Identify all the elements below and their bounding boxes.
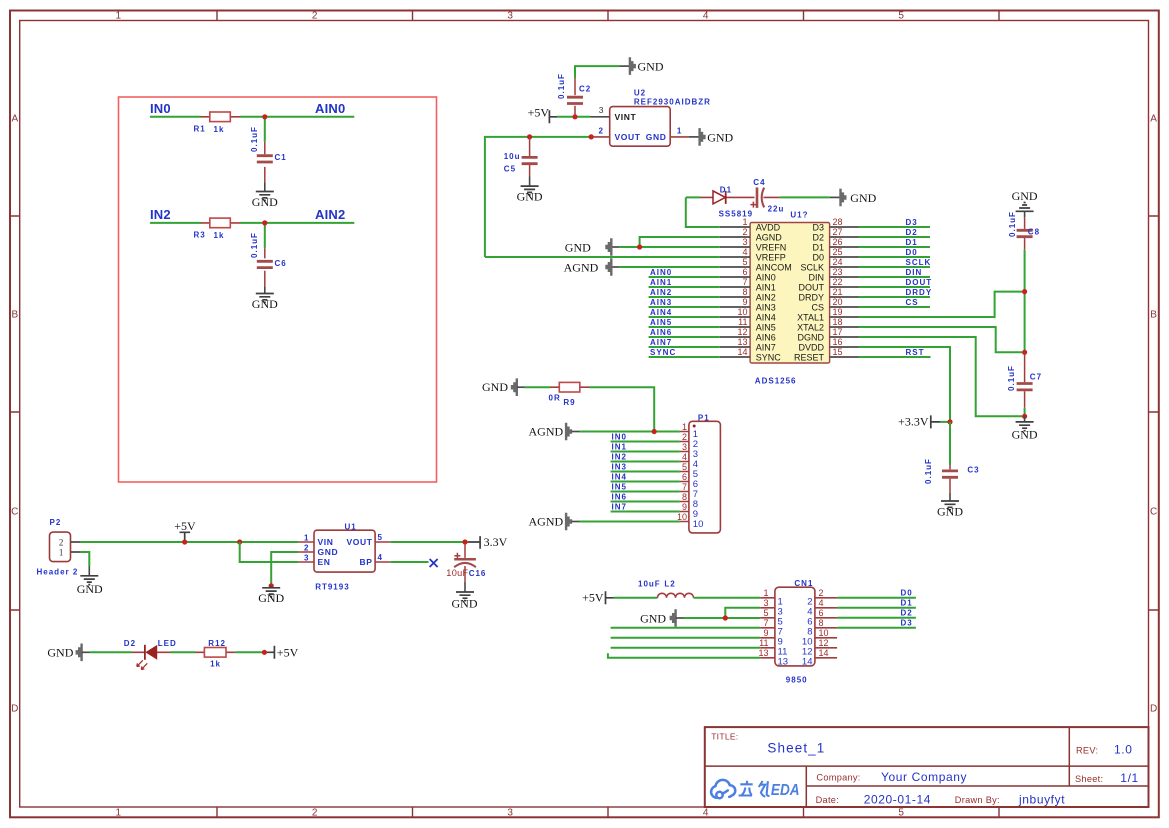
svg-text:1k: 1k xyxy=(210,660,221,669)
wire CN1 pin8 D3 xyxy=(837,627,916,629)
P2 pin stubs xyxy=(71,542,81,552)
svg-text:C6: C6 xyxy=(275,259,287,268)
svg-text:SYNC: SYNC xyxy=(650,348,676,357)
ground flag GND at D2 xyxy=(47,644,89,662)
svg-text:23: 23 xyxy=(833,267,843,277)
junction node CN1 GND xyxy=(723,615,728,620)
wires IN0-IN7 to P1 xyxy=(611,442,680,512)
wire CN1 pin4 D1 xyxy=(837,607,916,609)
svg-text:REV:: REV: xyxy=(1076,745,1098,755)
wire +5V rail to U1 VIN xyxy=(80,541,298,543)
svg-text:28: 28 xyxy=(833,217,843,227)
svg-text:GND: GND xyxy=(850,191,876,205)
svg-text:1: 1 xyxy=(763,588,768,598)
wire R12 to +5V xyxy=(235,651,267,653)
wire BP to no-connect xyxy=(390,561,428,563)
svg-text:GND: GND xyxy=(452,596,478,610)
svg-text:7: 7 xyxy=(682,482,687,492)
svg-text:AVDD: AVDD xyxy=(756,222,781,232)
svg-text:6: 6 xyxy=(742,267,747,277)
P1 pin stubs xyxy=(680,432,689,522)
svg-text:VIN: VIN xyxy=(318,537,334,547)
resistor R9 0R xyxy=(549,382,590,407)
svg-text:CS: CS xyxy=(811,302,824,312)
wire AVDD pin1 to D1 anode xyxy=(686,197,720,227)
svg-text:12: 12 xyxy=(819,638,829,648)
svg-text:R12: R12 xyxy=(208,639,226,648)
wire IN0 left xyxy=(150,116,201,118)
svg-text:U1: U1 xyxy=(345,522,357,531)
ground flag GND at R9 xyxy=(482,378,525,396)
svg-text:9850: 9850 xyxy=(786,675,808,684)
svg-text:GND: GND xyxy=(252,195,278,209)
svg-text:15: 15 xyxy=(833,347,843,357)
capacitor C6 xyxy=(250,232,287,287)
svg-text:0.1uF: 0.1uF xyxy=(1008,211,1017,237)
svg-text:0.1uF: 0.1uF xyxy=(924,458,933,484)
wire DVDD pin16 to +3.3V node xyxy=(859,347,950,422)
svg-text:17: 17 xyxy=(833,327,843,337)
ground GND under P2 xyxy=(77,567,103,596)
svg-text:IN1: IN1 xyxy=(612,443,627,452)
svg-text:9: 9 xyxy=(763,628,768,638)
svg-text:7: 7 xyxy=(742,277,747,287)
svg-text:DIN: DIN xyxy=(809,272,825,282)
svg-text:GND: GND xyxy=(565,241,591,255)
power flag +5V on rail xyxy=(174,519,196,542)
svg-text:SS5819: SS5819 xyxy=(719,209,753,218)
wire D2 to R12 xyxy=(170,651,195,653)
svg-text:20: 20 xyxy=(833,297,843,307)
svg-text:P2: P2 xyxy=(50,518,62,527)
wire CN1 pin11 xyxy=(611,647,761,649)
wire L2 to CN1 pin1 xyxy=(694,597,761,599)
svg-text:AIN6: AIN6 xyxy=(650,328,672,337)
svg-text:C: C xyxy=(1150,507,1157,518)
svg-text:Sheet:: Sheet: xyxy=(1075,774,1103,784)
svg-text:SCLK: SCLK xyxy=(906,258,932,267)
wire DGND pin17 to GND node xyxy=(859,337,1022,416)
svg-text:D1: D1 xyxy=(720,185,732,194)
ground GND above C8 (flipped earth) xyxy=(1012,189,1038,218)
CN1 right pin stubs xyxy=(815,598,837,658)
svg-text:L2: L2 xyxy=(664,579,675,588)
U1? left pin numbers xyxy=(737,217,747,357)
svg-text:Your Company: Your Company xyxy=(881,770,967,784)
svg-text:13: 13 xyxy=(758,648,768,658)
svg-text:GND: GND xyxy=(646,132,667,142)
wires AIN0-AIN7 SYNC xyxy=(649,277,720,357)
svg-text:22: 22 xyxy=(833,277,843,287)
svg-text:D1: D1 xyxy=(901,599,913,608)
svg-text:10: 10 xyxy=(677,512,687,522)
U1? right pin stubs 28-15 xyxy=(830,227,859,357)
svg-text:AIN0: AIN0 xyxy=(756,272,776,282)
svg-text:2: 2 xyxy=(682,432,687,442)
svg-text:IN4: IN4 xyxy=(612,473,627,482)
svg-text:1: 1 xyxy=(116,11,122,22)
junction node R3/C6 xyxy=(262,220,267,225)
grid row letters right xyxy=(1150,114,1157,715)
svg-text:GND: GND xyxy=(1012,427,1038,441)
svg-text:CN1: CN1 xyxy=(794,579,813,588)
svg-text:AIN6: AIN6 xyxy=(756,332,776,342)
svg-text:0.1uF: 0.1uF xyxy=(557,73,566,99)
svg-text:1k: 1k xyxy=(214,231,225,240)
svg-text:5: 5 xyxy=(763,608,768,618)
svg-text:3: 3 xyxy=(682,442,687,452)
svg-text:IN3: IN3 xyxy=(612,463,627,472)
wire CN1 pin13 xyxy=(608,653,760,658)
IC U1? ADS1256 body xyxy=(750,210,830,385)
capacitor C8 xyxy=(1008,211,1040,250)
svg-text:14: 14 xyxy=(819,648,829,658)
wire GND to D2 xyxy=(90,651,132,653)
svg-text:10u: 10u xyxy=(504,152,521,161)
svg-text:DRDY: DRDY xyxy=(798,292,824,302)
junction node VOUT pin2 xyxy=(589,134,594,139)
svg-text:1: 1 xyxy=(742,217,747,227)
svg-text:12: 12 xyxy=(737,327,747,337)
svg-text:1.0: 1.0 xyxy=(1114,742,1132,756)
junction node C2/+5V rail xyxy=(572,114,577,119)
pin 1 GND of U2 xyxy=(646,126,689,142)
wire VOUT to 3.3V xyxy=(390,541,468,543)
svg-text:DVDD: DVDD xyxy=(798,342,824,352)
capacitor C7 xyxy=(1007,352,1042,408)
ground GND under C7 xyxy=(1012,416,1038,441)
svg-text:21: 21 xyxy=(833,287,843,297)
inductor L2 10uF xyxy=(638,579,694,598)
svg-text:D1: D1 xyxy=(906,238,918,247)
svg-text:B: B xyxy=(1150,310,1157,321)
red section box (input filters) xyxy=(119,97,437,482)
junction node +3.3V/C3 xyxy=(947,419,952,424)
svg-text:VREFP: VREFP xyxy=(756,252,786,262)
svg-text:1: 1 xyxy=(304,534,309,543)
connector CN1 body xyxy=(775,579,815,684)
svg-text:AINCOM: AINCOM xyxy=(756,262,792,272)
wire GND pin2 branch xyxy=(271,552,298,586)
grid column numbers top xyxy=(116,11,905,22)
svg-text:22u: 22u xyxy=(768,204,785,213)
svg-text:0.1uF: 0.1uF xyxy=(250,126,259,152)
svg-text:GND: GND xyxy=(937,504,963,518)
U1? right pin numbers xyxy=(833,217,843,357)
svg-text:5: 5 xyxy=(378,533,383,542)
svg-text:3: 3 xyxy=(507,808,513,819)
svg-text:+5V: +5V xyxy=(528,106,550,120)
svg-text:DGND: DGND xyxy=(798,332,825,342)
svg-text:BP: BP xyxy=(359,557,372,567)
svg-text:7: 7 xyxy=(763,618,768,628)
svg-text:2: 2 xyxy=(742,227,747,237)
regulator U1 RT9193 body xyxy=(314,522,375,591)
svg-text:jnbuyfyt: jnbuyfyt xyxy=(1018,792,1065,806)
svg-text:AIN2: AIN2 xyxy=(650,288,672,297)
junction node C8/XTAL1 xyxy=(1022,289,1027,294)
wire C8 to junction xyxy=(1024,250,1026,352)
svg-text:27: 27 xyxy=(833,227,843,237)
resistor R1 xyxy=(194,112,241,134)
svg-text:24: 24 xyxy=(833,257,843,267)
junction node C5 tap xyxy=(527,134,532,139)
svg-text:RESET: RESET xyxy=(794,352,825,362)
svg-text:AIN3: AIN3 xyxy=(650,298,672,307)
svg-text:VINT: VINT xyxy=(615,112,637,122)
svg-text:VOUT: VOUT xyxy=(615,132,641,142)
svg-text:1: 1 xyxy=(59,548,64,558)
svg-text:D2: D2 xyxy=(812,232,824,242)
svg-text:IN7: IN7 xyxy=(612,503,627,512)
wire IN2 left xyxy=(150,222,201,224)
svg-text:XTAL2: XTAL2 xyxy=(797,322,824,332)
CN1 left inside numbers xyxy=(778,596,789,667)
svg-text:3.3V: 3.3V xyxy=(484,535,508,549)
svg-text:C4: C4 xyxy=(753,178,765,187)
svg-text:ADS1256: ADS1256 xyxy=(755,376,797,385)
U1 pin stubs xyxy=(298,542,390,562)
svg-text:2020-01-14: 2020-01-14 xyxy=(864,792,931,806)
capacitor C1 xyxy=(250,126,287,182)
svg-text:CS: CS xyxy=(906,298,919,307)
wires D3-CS right xyxy=(859,227,930,307)
svg-text:10uF: 10uF xyxy=(446,568,468,578)
svg-text:VOUT: VOUT xyxy=(346,537,372,547)
svg-text:AIN0: AIN0 xyxy=(315,101,345,116)
svg-text:RST: RST xyxy=(906,348,925,357)
junction node R1/C1 xyxy=(262,114,267,119)
svg-text:D2: D2 xyxy=(124,639,136,648)
ground flag GND at U2 pin1 xyxy=(689,128,734,146)
svg-text:6: 6 xyxy=(819,608,824,618)
grid column numbers bottom xyxy=(116,808,905,819)
junction node R12/+5V xyxy=(262,650,267,655)
resistor R12 1k xyxy=(195,639,235,669)
wire CN1 pin7 xyxy=(611,627,761,629)
svg-text:AGND: AGND xyxy=(529,515,564,529)
wire VOUT net to VREFP xyxy=(485,137,720,257)
wire XTAL2 pin18 to C7 node xyxy=(859,327,1022,352)
wire XTAL1 pin19 to C8 node xyxy=(859,292,1022,317)
svg-text:4: 4 xyxy=(703,808,709,819)
svg-text:C1: C1 xyxy=(275,153,287,162)
svg-text:11: 11 xyxy=(738,317,747,327)
svg-text:AIN4: AIN4 xyxy=(650,308,672,317)
svg-text:2: 2 xyxy=(304,544,309,553)
power flag +5V at U2 xyxy=(528,106,557,124)
svg-text:GND: GND xyxy=(1012,189,1038,203)
wire +5V to U2 pin3 xyxy=(557,116,590,118)
svg-text:3: 3 xyxy=(507,11,513,22)
svg-text:U2: U2 xyxy=(634,89,646,98)
power flag +3.3V xyxy=(898,415,950,429)
wire GND to CN1 pins 3 and 5 xyxy=(684,608,761,618)
ground flag GND top of C2 xyxy=(620,57,664,75)
svg-text:SCLK: SCLK xyxy=(800,262,824,272)
svg-text:IN6: IN6 xyxy=(612,493,627,502)
svg-text:DIN: DIN xyxy=(906,268,923,277)
svg-text:D3: D3 xyxy=(906,218,918,227)
svg-text:+5V: +5V xyxy=(174,519,196,533)
junction node GND/VREFN xyxy=(637,244,642,249)
ground flag AGND at AINCOM xyxy=(564,258,619,276)
svg-text:AIN2: AIN2 xyxy=(315,207,345,222)
svg-text:EDA: EDA xyxy=(771,782,800,799)
capacitor C4 22u polarized xyxy=(750,178,784,213)
wire CN1 pin2 D0 xyxy=(837,597,916,599)
svg-text:1: 1 xyxy=(116,808,122,819)
logo LCEDA cloud xyxy=(711,780,735,798)
svg-text:+5V: +5V xyxy=(582,591,604,605)
svg-text:4: 4 xyxy=(703,11,709,22)
svg-text:AGND: AGND xyxy=(529,425,564,439)
svg-text:AIN2: AIN2 xyxy=(756,292,776,302)
ground flag AGND bottom at P1 xyxy=(529,513,580,531)
svg-text:10: 10 xyxy=(737,307,747,317)
svg-text:3: 3 xyxy=(742,237,747,247)
svg-text:D2: D2 xyxy=(901,609,913,618)
svg-text:C8: C8 xyxy=(1028,227,1040,236)
CN1 right inside numbers xyxy=(802,596,813,667)
svg-text:P1: P1 xyxy=(698,414,710,423)
svg-text:SYNC: SYNC xyxy=(756,352,782,362)
U1 pin numbers xyxy=(304,533,383,563)
svg-text:4: 4 xyxy=(742,247,747,257)
svg-text:9: 9 xyxy=(682,502,687,512)
svg-text:REF2930AIDBZR: REF2930AIDBZR xyxy=(634,98,711,107)
svg-text:10uF: 10uF xyxy=(638,579,661,588)
svg-text:2: 2 xyxy=(312,808,318,819)
svg-text:U1?: U1? xyxy=(790,210,808,219)
svg-text:+3.3V: +3.3V xyxy=(898,415,929,429)
svg-text:8: 8 xyxy=(819,618,824,628)
junction node P1 pin1 xyxy=(652,429,657,434)
svg-text:IN2: IN2 xyxy=(612,453,627,462)
capacitor C16 10uF polarized xyxy=(446,545,486,582)
svg-text:10: 10 xyxy=(819,628,829,638)
svg-text:D: D xyxy=(11,704,18,715)
capacitor C2 xyxy=(557,73,591,117)
svg-text:AIN5: AIN5 xyxy=(756,322,776,332)
svg-text:5: 5 xyxy=(898,808,904,819)
op-amp U2 REF2930AIDBZR body xyxy=(610,89,711,147)
svg-text:26: 26 xyxy=(833,237,843,247)
junction node VOUT/C16 xyxy=(462,539,467,544)
svg-text:GND: GND xyxy=(640,611,666,625)
ground GND under C1 xyxy=(252,182,278,209)
svg-text:GND: GND xyxy=(318,547,339,557)
U1 pin names xyxy=(318,537,373,567)
wire AIN0 xyxy=(240,117,354,142)
power flag +5V at L2 xyxy=(582,591,613,605)
svg-text:1: 1 xyxy=(677,126,682,135)
svg-text:14: 14 xyxy=(802,656,813,667)
svg-text:C16: C16 xyxy=(469,569,487,578)
svg-text:GND: GND xyxy=(47,645,73,659)
svg-text:C3: C3 xyxy=(967,465,979,474)
svg-text:0.1uF: 0.1uF xyxy=(250,232,259,258)
svg-text:IN0: IN0 xyxy=(150,101,171,116)
svg-text:GND: GND xyxy=(707,130,733,144)
U1? left pin stubs 1-14 xyxy=(720,227,750,357)
wire CN1 pin6 D2 xyxy=(837,617,916,619)
logo text 立创 xyxy=(739,781,770,797)
svg-text:DOUT: DOUT xyxy=(799,282,825,292)
svg-text:3: 3 xyxy=(304,554,309,563)
diode D2 LED xyxy=(124,639,177,669)
svg-text:AGND: AGND xyxy=(756,232,783,242)
svg-text:16: 16 xyxy=(833,337,843,347)
wire AGND pin2 jog xyxy=(640,237,720,247)
capacitor C3 xyxy=(924,422,980,493)
svg-text:LED: LED xyxy=(158,639,177,648)
svg-text:A: A xyxy=(11,114,18,125)
svg-text:D0: D0 xyxy=(812,252,824,262)
svg-text:AIN7: AIN7 xyxy=(756,342,776,352)
ground GND under C3 xyxy=(937,493,963,518)
ground GND under C16 xyxy=(452,582,478,611)
svg-text:D0: D0 xyxy=(906,248,918,257)
wire RST pin15 xyxy=(859,356,931,358)
svg-text:D3: D3 xyxy=(812,222,824,232)
ground GND under C6 xyxy=(252,287,278,311)
svg-text:14: 14 xyxy=(737,347,747,357)
CN1 left outside numbers xyxy=(758,588,768,658)
svg-text:R9: R9 xyxy=(563,398,575,407)
pin 3 VINT of U2 xyxy=(590,105,636,122)
grid row letters left xyxy=(11,114,18,715)
wire +5V to L2 xyxy=(614,597,658,599)
svg-text:4: 4 xyxy=(378,553,383,562)
svg-text:Header 2: Header 2 xyxy=(37,567,79,576)
junction node RT GND xyxy=(269,583,274,588)
title block frame xyxy=(705,727,1149,807)
wire R9 to P1 pin1 xyxy=(589,387,654,431)
wire P2 pin1 to GND xyxy=(80,552,89,567)
svg-text:D3: D3 xyxy=(901,619,913,628)
U1? right pin names xyxy=(794,222,825,362)
wire GND to R9 xyxy=(525,386,551,388)
svg-text:Date:: Date: xyxy=(816,795,839,805)
svg-text:9: 9 xyxy=(742,297,747,307)
svg-text:+5V: +5V xyxy=(277,646,299,660)
svg-text:2: 2 xyxy=(819,588,824,598)
svg-text:8: 8 xyxy=(742,287,747,297)
ground flag GND at VREFN xyxy=(565,238,619,256)
svg-text:C5: C5 xyxy=(504,164,516,173)
pin 2 VOUT of U2 xyxy=(591,126,641,142)
svg-text:2: 2 xyxy=(312,11,318,22)
svg-text:Sheet_1: Sheet_1 xyxy=(767,741,825,756)
svg-text:DOUT: DOUT xyxy=(906,278,933,287)
junction node C7/DGND xyxy=(1022,414,1027,419)
svg-text:Drawn By:: Drawn By: xyxy=(955,795,1000,805)
wire C4 to GND xyxy=(780,196,830,198)
svg-text:D0: D0 xyxy=(901,589,913,598)
svg-text:GND: GND xyxy=(258,591,284,605)
power flag +5V at R12 xyxy=(267,646,299,660)
ground flag AGND top at P1 xyxy=(529,423,580,441)
ground GND under U1 xyxy=(258,586,284,605)
svg-text:GND: GND xyxy=(482,380,508,394)
wire AINCOM pin5 to AGND flag xyxy=(619,266,720,268)
connector P1 body xyxy=(689,414,721,533)
svg-text:AIN0: AIN0 xyxy=(650,268,672,277)
svg-text:0.1uF: 0.1uF xyxy=(1007,365,1016,391)
svg-text:19: 19 xyxy=(833,307,843,317)
svg-text:11: 11 xyxy=(759,638,768,648)
